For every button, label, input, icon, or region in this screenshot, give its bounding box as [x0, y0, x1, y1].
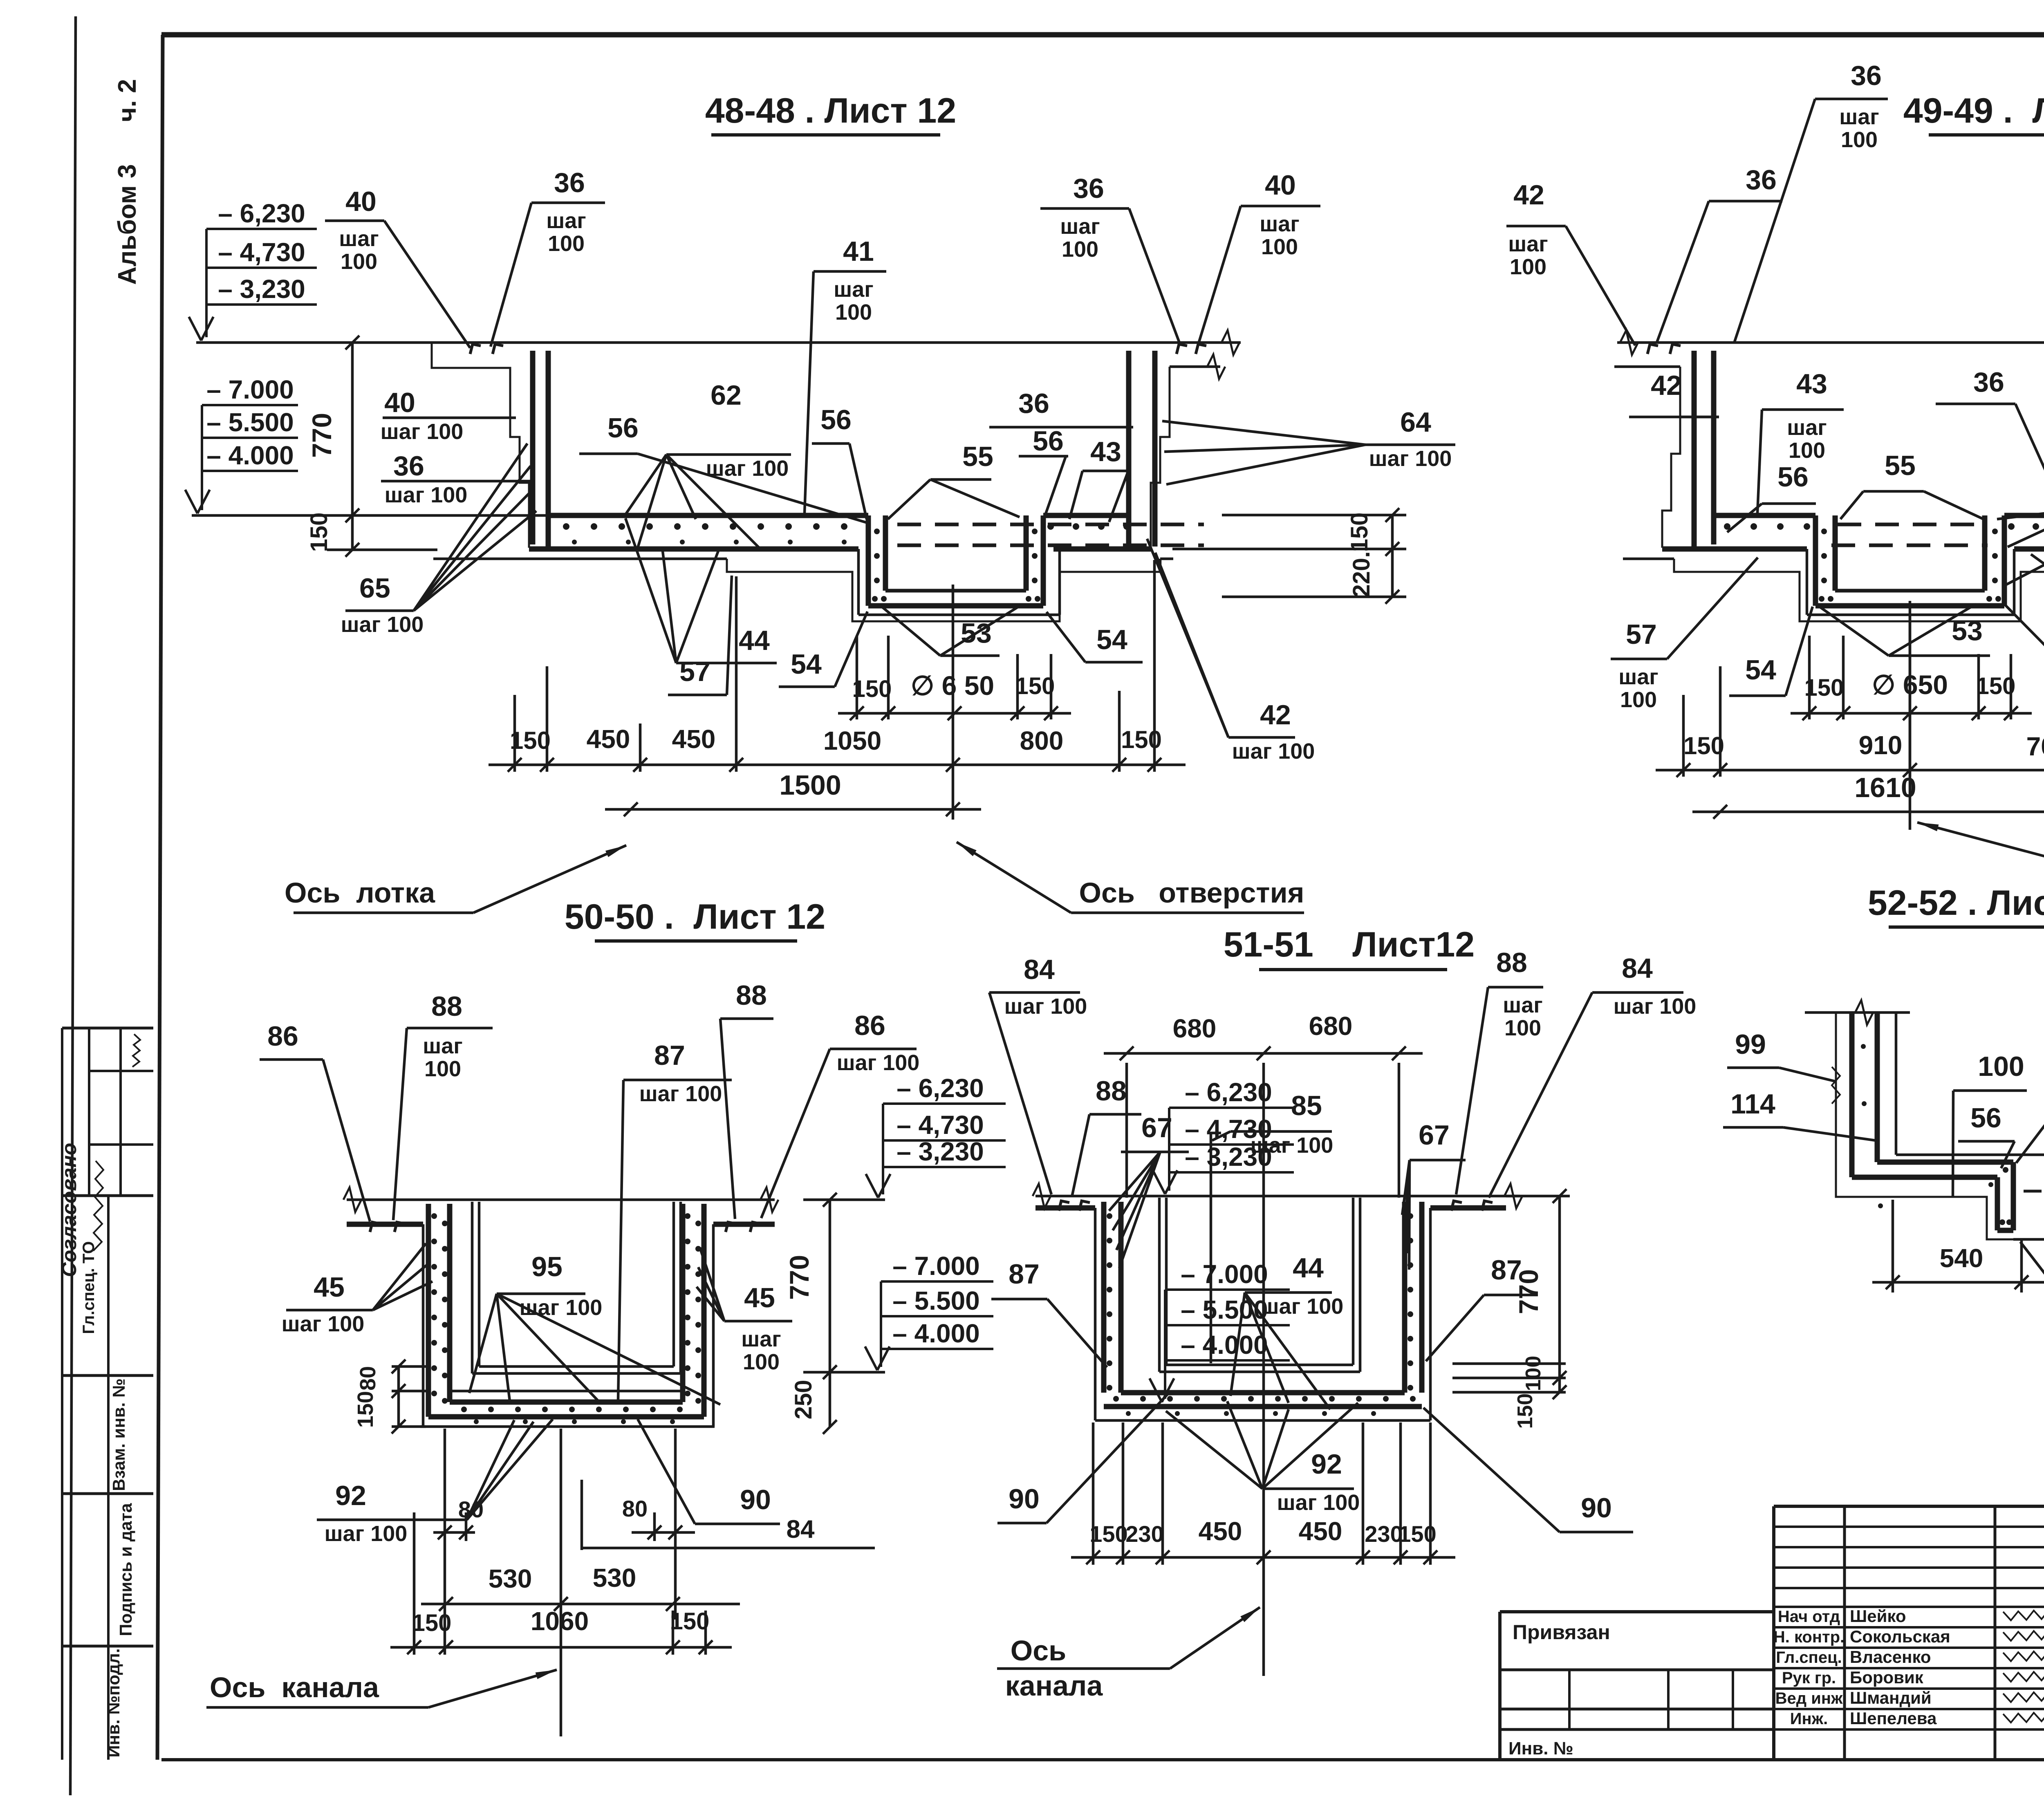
- svg-text:100: 100: [1261, 235, 1298, 259]
- svg-text:530: 530: [489, 1564, 532, 1593]
- svg-text:– 5.500: – 5.500: [892, 1286, 980, 1315]
- svg-text:56: 56: [1970, 1102, 2001, 1133]
- svg-text:42: 42: [1513, 179, 1544, 211]
- svg-text:54: 54: [1745, 654, 1776, 685]
- svg-text:Гл.спец.: Гл.спец.: [1776, 1649, 1842, 1667]
- svg-text:150: 150: [1121, 726, 1162, 753]
- svg-text:Ось канала: Ось канала: [210, 1671, 379, 1703]
- svg-text:1610: 1610: [1854, 772, 1916, 803]
- svg-text:57: 57: [1626, 619, 1657, 650]
- svg-text:шаг 100: шаг 100: [341, 612, 424, 637]
- svg-text:– 3,230: – 3,230: [896, 1137, 984, 1166]
- svg-text:шаг: шаг: [1503, 993, 1543, 1017]
- svg-text:шаг: шаг: [546, 208, 586, 233]
- svg-text:шаг: шаг: [1839, 105, 1879, 129]
- svg-text:шаг 100: шаг 100: [1369, 446, 1452, 471]
- svg-text:– 6,230: – 6,230: [1185, 1077, 1272, 1107]
- svg-text:шаг 100: шаг 100: [1251, 1133, 1334, 1158]
- svg-text:49-49 . Лист 12: 49-49 . Лист 12: [1903, 91, 2044, 130]
- svg-text:36: 36: [1851, 60, 1882, 91]
- svg-text:Инв. №подл.: Инв. №подл.: [104, 1648, 123, 1757]
- svg-text:450: 450: [587, 724, 630, 754]
- svg-text:84: 84: [1622, 953, 1653, 984]
- svg-text:770: 770: [784, 1255, 814, 1300]
- svg-text:100: 100: [743, 1350, 780, 1374]
- svg-text:40: 40: [345, 186, 377, 217]
- svg-text:– 4,730: – 4,730: [218, 237, 305, 267]
- svg-text:87: 87: [654, 1040, 685, 1071]
- svg-text:шаг: шаг: [1060, 214, 1100, 239]
- svg-text:92: 92: [1311, 1449, 1342, 1480]
- svg-text:100: 100: [1620, 688, 1657, 712]
- svg-text:100: 100: [341, 249, 377, 274]
- svg-text:шаг 100: шаг 100: [325, 1521, 408, 1546]
- svg-text:52-52 . Лист 12 .: 52-52 . Лист 12 .: [1868, 883, 2044, 923]
- svg-text:шаг: шаг: [423, 1034, 463, 1058]
- svg-text:42: 42: [1260, 699, 1291, 730]
- svg-text:Ось: Ось: [1011, 1635, 1066, 1667]
- svg-text:100: 100: [1841, 128, 1878, 152]
- svg-text:57: 57: [679, 656, 710, 687]
- svg-text:36: 36: [1073, 173, 1104, 204]
- svg-text:шаг: шаг: [741, 1327, 781, 1351]
- svg-text:шаг 100: шаг 100: [1277, 1490, 1360, 1515]
- svg-text:Ось лотка: Ось лотка: [285, 877, 435, 909]
- svg-text:64: 64: [1400, 407, 1431, 438]
- svg-text:99: 99: [1735, 1029, 1766, 1060]
- svg-text:40: 40: [1265, 170, 1296, 201]
- svg-text:шаг 100: шаг 100: [639, 1082, 722, 1106]
- svg-text:56: 56: [820, 404, 852, 435]
- svg-text:90: 90: [1581, 1492, 1612, 1523]
- svg-text:40: 40: [384, 387, 415, 418]
- svg-text:100: 100: [424, 1057, 461, 1081]
- svg-text:36: 36: [554, 167, 585, 198]
- svg-text:84: 84: [1024, 954, 1055, 985]
- svg-text:67: 67: [1419, 1120, 1450, 1151]
- svg-text:36: 36: [1746, 164, 1777, 195]
- svg-text:450: 450: [672, 724, 716, 754]
- svg-text:Привязан: Привязан: [1513, 1621, 1610, 1644]
- svg-text:770: 770: [307, 413, 337, 458]
- svg-text:84: 84: [787, 1515, 815, 1543]
- svg-text:шаг 100: шаг 100: [837, 1051, 920, 1075]
- svg-text:100: 100: [1504, 1016, 1541, 1040]
- svg-text:450: 450: [1199, 1517, 1242, 1546]
- svg-text:1060: 1060: [531, 1606, 589, 1636]
- svg-text:800: 800: [1020, 726, 1064, 755]
- svg-text:– 4.000: – 4.000: [1181, 1330, 1268, 1360]
- svg-text:Подпись и дата: Подпись и дата: [116, 1503, 135, 1636]
- svg-text:86: 86: [854, 1010, 885, 1041]
- svg-text:шаг: шаг: [1618, 665, 1659, 689]
- svg-text:– 6,230: – 6,230: [218, 199, 305, 228]
- svg-text:шаг 100: шаг 100: [1004, 994, 1087, 1019]
- svg-text:65: 65: [359, 573, 390, 604]
- svg-text:95: 95: [531, 1251, 563, 1282]
- svg-text:Вед инж: Вед инж: [1775, 1689, 1843, 1707]
- svg-text:150: 150: [1346, 513, 1373, 552]
- svg-text:80: 80: [458, 1496, 484, 1522]
- svg-text:1500: 1500: [779, 770, 841, 801]
- svg-text:Гл.спец. ТО: Гл.спец. ТО: [80, 1241, 98, 1334]
- svg-text:56: 56: [607, 412, 639, 444]
- svg-text:700: 700: [2026, 732, 2044, 761]
- svg-text:– 3,230: – 3,230: [218, 274, 305, 304]
- svg-text:450: 450: [1299, 1517, 1342, 1546]
- svg-text:Шейко: Шейко: [1850, 1606, 1906, 1626]
- svg-text:42: 42: [1651, 370, 1682, 401]
- svg-text:86: 86: [267, 1021, 298, 1052]
- svg-text:44: 44: [1293, 1252, 1324, 1284]
- svg-text:230: 230: [1125, 1521, 1163, 1547]
- svg-text:100: 100: [1522, 1356, 1545, 1391]
- svg-text:1050: 1050: [823, 726, 881, 755]
- svg-text:шаг 100: шаг 100: [381, 419, 464, 444]
- svg-text:шаг: шаг: [1260, 212, 1300, 236]
- svg-text:шаг 100: шаг 100: [282, 1312, 365, 1336]
- svg-text:90: 90: [740, 1484, 771, 1515]
- svg-text:36: 36: [1018, 388, 1049, 419]
- svg-text:Рук гр.: Рук гр.: [1782, 1669, 1836, 1687]
- svg-text:92: 92: [335, 1480, 366, 1511]
- svg-text:43: 43: [1090, 436, 1121, 467]
- svg-text:шаг 100: шаг 100: [1232, 739, 1315, 764]
- svg-text:85: 85: [1291, 1090, 1322, 1121]
- svg-text:41: 41: [843, 236, 874, 267]
- svg-text:88: 88: [1496, 947, 1527, 978]
- svg-text:Шмандий: Шмандий: [1850, 1688, 1932, 1707]
- svg-text:150: 150: [1976, 673, 2016, 699]
- svg-text:80: 80: [356, 1366, 380, 1391]
- svg-text:Согласовано: Согласовано: [58, 1143, 81, 1277]
- svg-text:44: 44: [739, 625, 770, 656]
- svg-text:54: 54: [791, 649, 822, 680]
- svg-text:67: 67: [1141, 1112, 1172, 1143]
- svg-text:48-48 . Лист 12: 48-48 . Лист 12: [705, 91, 956, 130]
- svg-text:шаг: шаг: [339, 226, 379, 251]
- svg-text:45: 45: [314, 1272, 345, 1303]
- svg-text:Н. контр.: Н. контр.: [1773, 1628, 1845, 1646]
- svg-text:530: 530: [593, 1563, 637, 1593]
- svg-text:шаг 100: шаг 100: [385, 483, 468, 507]
- svg-text:250: 250: [790, 1380, 817, 1420]
- svg-text:канала: канала: [1005, 1670, 1103, 1702]
- svg-text:53: 53: [1952, 615, 1983, 646]
- svg-text:230: 230: [1365, 1521, 1403, 1547]
- svg-text:88: 88: [431, 991, 462, 1022]
- svg-text:100: 100: [1978, 1051, 2024, 1082]
- svg-text:– 7.000: – 7.000: [892, 1251, 980, 1281]
- svg-text:Боровик: Боровик: [1850, 1668, 1924, 1687]
- svg-text:150: 150: [1683, 732, 1724, 759]
- svg-text:150: 150: [670, 1608, 710, 1635]
- svg-text:– 5.500: – 5.500: [206, 408, 294, 437]
- svg-text:Власенко: Власенко: [1850, 1647, 1931, 1667]
- svg-text:43: 43: [1796, 368, 1827, 399]
- svg-text:80: 80: [622, 1496, 648, 1521]
- svg-text:шаг: шаг: [1508, 232, 1548, 256]
- svg-text:– 4.000: – 4.000: [892, 1319, 980, 1348]
- svg-text:– 7.000: – 7.000: [1181, 1259, 1268, 1289]
- svg-text:100: 100: [1510, 255, 1546, 279]
- svg-text:87: 87: [1009, 1259, 1040, 1290]
- svg-text:Инв. №: Инв. №: [1508, 1738, 1573, 1758]
- svg-text:Сокольская: Сокольская: [1850, 1627, 1950, 1646]
- svg-text:910: 910: [1859, 730, 1903, 760]
- svg-text:100: 100: [1062, 237, 1098, 262]
- svg-text:150: 150: [510, 727, 551, 754]
- svg-text:50-50 . Лист 12: 50-50 . Лист 12: [565, 897, 825, 936]
- svg-text:100: 100: [835, 300, 872, 325]
- svg-text:– 4.000: – 4.000: [206, 441, 294, 470]
- svg-text:54: 54: [1096, 624, 1127, 655]
- svg-text:Альбом 3 ч. 2: Альбом 3 ч. 2: [113, 79, 141, 284]
- svg-text:Нач отд: Нач отд: [1778, 1608, 1840, 1626]
- svg-text:100: 100: [548, 231, 585, 256]
- svg-text:150: 150: [1804, 674, 1844, 701]
- svg-text:Шепелева: Шепелева: [1850, 1709, 1937, 1728]
- svg-text:220.: 220.: [1348, 551, 1375, 598]
- svg-text:– 4,730: – 4,730: [896, 1110, 984, 1140]
- svg-text:– 7.000: – 7.000: [206, 375, 294, 404]
- svg-text:114: 114: [1730, 1089, 1775, 1120]
- svg-text:Инж.: Инж.: [1790, 1710, 1828, 1728]
- svg-text:150: 150: [1513, 1393, 1537, 1429]
- svg-text:шаг 100: шаг 100: [1614, 994, 1697, 1019]
- svg-text:680: 680: [1173, 1014, 1217, 1043]
- svg-text:150: 150: [1089, 1521, 1127, 1547]
- svg-text:Взам. инв. №: Взам. инв. №: [109, 1378, 128, 1491]
- svg-text:150: 150: [306, 513, 332, 552]
- svg-text:88: 88: [736, 980, 767, 1011]
- svg-text:шаг 100: шаг 100: [520, 1295, 603, 1320]
- svg-text:680: 680: [1309, 1011, 1353, 1041]
- svg-text:Ось отверстия: Ось отверстия: [1079, 877, 1304, 909]
- svg-text:88: 88: [1096, 1075, 1127, 1107]
- svg-text:36: 36: [393, 450, 424, 482]
- svg-text:150: 150: [412, 1610, 452, 1636]
- svg-text:100: 100: [1788, 438, 1825, 463]
- svg-text:90: 90: [1009, 1483, 1040, 1514]
- svg-text:150: 150: [852, 676, 892, 702]
- svg-text:62: 62: [710, 380, 742, 411]
- svg-text:36: 36: [1973, 367, 2004, 398]
- svg-text:∅ 6 50: ∅ 6 50: [911, 670, 994, 701]
- svg-text:150: 150: [353, 1391, 378, 1428]
- svg-text:45: 45: [744, 1282, 775, 1313]
- svg-text:150: 150: [1015, 673, 1055, 699]
- svg-text:шаг 100: шаг 100: [1261, 1294, 1344, 1319]
- svg-text:56: 56: [1777, 461, 1809, 493]
- svg-text:55: 55: [1885, 450, 1916, 481]
- svg-text:150: 150: [1398, 1521, 1436, 1547]
- svg-text:шаг: шаг: [834, 277, 874, 302]
- svg-text:540: 540: [1940, 1243, 1983, 1273]
- svg-text:51-51 Лист12: 51-51 Лист12: [1224, 925, 1475, 964]
- svg-text:87: 87: [1491, 1254, 1522, 1286]
- svg-text:55: 55: [962, 441, 993, 472]
- svg-text:шаг: шаг: [1787, 415, 1827, 440]
- svg-text:– 6,230: – 6,230: [896, 1073, 984, 1103]
- svg-text:56: 56: [1033, 426, 1064, 457]
